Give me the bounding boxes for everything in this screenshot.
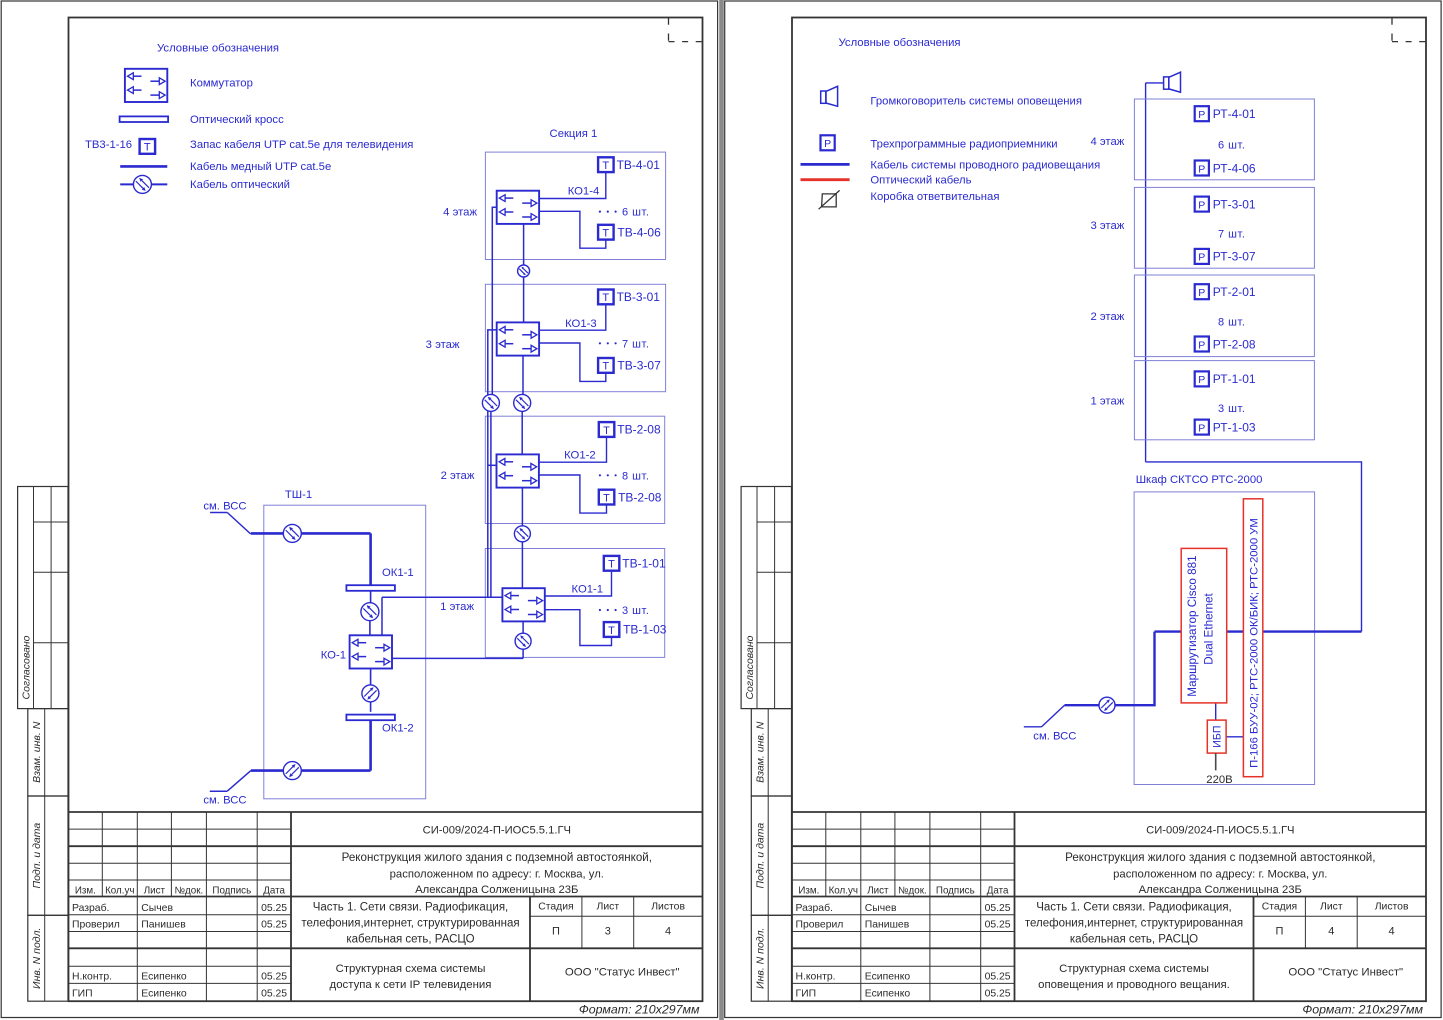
svg-text:P: P [1198,287,1205,299]
svg-text:П: П [552,926,560,938]
svg-text:3 этаж: 3 этаж [426,339,460,351]
svg-text:Подп. и дата: Подп. и дата [755,823,767,889]
switch КО1-3 [497,322,539,355]
legend optical cross symbol [120,116,169,122]
optical connector below KO-1 [362,685,379,702]
svg-text:05.25: 05.25 [985,971,1011,982]
node sm.VSS page2 [1042,705,1065,727]
svg-text:КО1-2: КО1-2 [564,450,596,462]
svg-text:ТВ-4-01: ТВ-4-01 [617,158,661,172]
svg-text:ООО "Статус Инвест": ООО "Статус Инвест" [565,967,680,979]
svg-text:P: P [1198,199,1205,211]
svg-text:Согласовано: Согласовано [744,635,756,699]
svg-text:оповещения и проводного вещани: оповещения и проводного вещания. [1038,979,1230,991]
svg-text:ИБП: ИБП [1211,726,1223,748]
svg-text:ТШ-1: ТШ-1 [285,489,312,501]
wire KO-1 up to floor1 line [381,597,383,635]
svg-text:кабельная сеть, РАСЦО: кабельная сеть, РАСЦО [1070,934,1198,946]
svg-text:Кабель системы проводного ради: Кабель системы проводного радиовещания [870,159,1100,171]
svg-text:Подпись: Подпись [212,885,251,896]
svg-text:Лист: Лист [597,901,620,912]
svg-text:Стадия: Стадия [1262,901,1297,912]
ellipsis and count floor 2 [599,474,601,476]
svg-text:Изм.: Изм. [798,885,819,896]
title block [69,811,703,813]
svg-text:П: П [1275,926,1283,938]
wire to floor 1 switch [382,596,502,598]
floor 2 box [485,416,664,523]
svg-text:Кабель медный UTP cat.5e: Кабель медный UTP cat.5e [190,161,331,173]
svg-text:7 шт.: 7 шт. [1218,229,1245,241]
svg-text:Разраб.: Разраб. [796,902,833,914]
legend loudspeaker symbol [821,91,826,103]
svg-text:СИ-009/2024-П-ИОС5.5.1.ГЧ: СИ-009/2024-П-ИОС5.5.1.ГЧ [1146,825,1294,837]
wire KO-1 right to riser [392,657,523,659]
svg-text:ГИП: ГИП [72,988,93,999]
optical connector on top VSS cable [283,524,301,542]
wire from ТВ-3-01 to switch [539,304,606,330]
TV outlet ТВ-3-01 [598,290,614,305]
ellipsis and count floor 1 [599,609,601,611]
svg-text:Громкоговоритель системы опове: Громкоговоритель системы оповещения [870,96,1082,108]
svg-text:Дата: Дата [263,885,285,896]
svg-text:P: P [1198,163,1205,175]
svg-text:8 шт.: 8 шт. [622,470,649,482]
svg-text:Секция 1: Секция 1 [550,128,598,140]
svg-text:Подпись: Подпись [936,885,975,896]
svg-text:4: 4 [1328,926,1334,938]
radio riser cable [1145,83,1147,462]
svg-text:Запас кабеля UTP cat.5e для те: Запас кабеля UTP cat.5e для телевидения [190,139,413,151]
wire riser to cabinet [1146,462,1362,632]
drawing frame [792,18,1426,1002]
margin stamp Взам. инв. N [751,709,791,796]
switch КО1-1 [502,588,544,621]
svg-text:Лист: Лист [1320,901,1343,912]
TV outlet ТВ-2-08 [599,490,615,505]
svg-text:4 этаж: 4 этаж [443,207,477,219]
svg-text:ТВ-3-01: ТВ-3-01 [617,290,661,304]
svg-text:Dual Ethernet: Dual Ethernet [1203,593,1216,665]
svg-text:ТВ-2-08: ТВ-2-08 [618,490,662,504]
svg-text:Формат: 210х297мм: Формат: 210х297мм [579,1003,700,1017]
TV outlet ТВ-1-01 [604,556,620,571]
svg-text:T: T [608,559,615,571]
legend wired radio cable [801,163,850,166]
wire from ТВ-2-08 to switch [539,437,607,462]
svg-text:ТВ-2-08: ТВ-2-08 [617,423,661,437]
legend optical cable line [120,183,167,185]
svg-text:3 шт.: 3 шт. [1218,403,1245,415]
svg-text:Разраб.: Разраб. [72,902,109,914]
UPS IBP [1207,720,1226,753]
legend optical cable red [801,178,850,181]
floor 3 box [485,284,665,391]
switch КО1-4 [497,191,539,224]
svg-text:Листов: Листов [651,901,685,912]
legend switch symbol [125,69,167,102]
svg-text:2 этаж: 2 этаж [1090,311,1124,323]
optical cable to VSS (top) [251,532,371,535]
margin stamp Взам. инв. N [28,709,68,796]
svg-text:Александра Солженицына 23Б: Александра Солженицына 23Б [1139,884,1302,896]
radio outlet РТ-2-01 [1195,284,1209,299]
svg-text:см. ВСС: см. ВСС [203,794,246,806]
svg-text:Оптический кабель: Оптический кабель [870,175,971,187]
svg-text:P: P [1198,339,1205,351]
optical connector above KO-1 [361,603,379,621]
node sm.VSS bottom [227,771,251,792]
svg-text:ТВ-1-03: ТВ-1-03 [623,623,667,637]
svg-text:7 шт.: 7 шт. [622,338,649,350]
floor2 switch left port wire [488,464,497,466]
svg-text:6 шт.: 6 шт. [1218,139,1245,151]
svg-text:P: P [1198,109,1205,121]
svg-text:Кол.уч: Кол.уч [829,885,858,896]
svg-text:РТ-4-06: РТ-4-06 [1213,161,1256,175]
approval table (Soglasovano) [741,487,791,709]
amplifier P-166 BUU-02 RTS-2000 [1243,499,1262,777]
svg-text:Реконструкция жилого здания с: Реконструкция жилого здания с подземной … [342,851,652,864]
title block [792,811,1426,813]
riser copper cable from floor4 switch [492,207,496,394]
backbone riser floor2-floor1 [521,488,523,526]
svg-text:Панишев: Панишев [141,920,186,931]
wire OK1-1 to connector [370,591,372,603]
svg-text:ТВ-3-07: ТВ-3-07 [617,359,661,373]
svg-text:ТВ3-1-16: ТВ3-1-16 [85,139,132,151]
svg-text:3 шт.: 3 шт. [622,605,649,617]
svg-text:РТ-3-07: РТ-3-07 [1213,250,1256,264]
svg-text:4: 4 [665,926,671,938]
svg-text:Кабель оптический: Кабель оптический [190,179,290,191]
approval table (Soglasovano) [18,487,68,709]
svg-text:Реконструкция жилого здания с: Реконструкция жилого здания с подземной … [1065,851,1375,864]
wire from switch to ТВ-1-03 [545,610,612,646]
svg-text:КО-1: КО-1 [321,650,346,662]
svg-text:Согласовано: Согласовано [20,635,32,699]
svg-text:Листов: Листов [1375,901,1409,912]
wire from switch to ТВ-4-06 [539,211,606,248]
svg-text:T: T [144,142,151,154]
svg-text:расположенном по адресу: г. Мо: расположенном по адресу: г. Москва, ул. [390,869,604,881]
floor 4 box [485,152,665,259]
svg-text:РТ-4-01: РТ-4-01 [1213,107,1256,121]
svg-text:220В: 220В [1206,774,1232,786]
margin stamp Инв. N подл. [751,915,791,1001]
svg-text:T: T [602,160,609,172]
svg-text:Подп. и дата: Подп. и дата [31,823,43,889]
svg-text:Сычев: Сычев [865,903,897,914]
svg-text:Сычев: Сычев [141,903,173,914]
svg-text:см. ВСС: см. ВСС [203,501,246,513]
svg-text:Часть 1. Сети связи. Радиофика: Часть 1. Сети связи. Радиофикация, [1036,902,1232,914]
svg-text:T: T [602,292,609,304]
svg-text:Н.контр.: Н.контр. [72,971,112,982]
floor 1 box page2 [1134,361,1314,440]
TV outlet ТВ-2-08 [599,422,615,437]
router Cisco 881 [1181,548,1227,703]
left riser continuation [490,411,492,597]
margin stamp Инв. N подл. [28,915,68,1001]
svg-text:кабельная сеть, РАСЦО: кабельная сеть, РАСЦО [346,934,474,946]
margin stamp Подп. и дата [28,796,68,915]
wire from ТВ-4-01 to switch [539,172,606,198]
svg-text:P: P [1198,252,1205,264]
svg-text:Условные обозначения: Условные обозначения [839,37,961,49]
svg-text:T: T [602,228,609,240]
floor 2 box page2 [1134,275,1314,357]
ellipsis and count floor 3 [599,342,601,344]
svg-text:2 этаж: 2 этаж [441,470,475,482]
TV outlet ТВ-4-01 [598,157,614,172]
svg-text:P: P [824,138,831,150]
radio outlet РТ-4-01 [1195,106,1209,121]
switch KO-1 [350,635,392,668]
radio outlet РТ-3-07 [1195,249,1209,264]
svg-text:Маршрутизатор Cisco 881: Маршрутизатор Cisco 881 [1186,555,1199,696]
main bus wire in cabinet [1155,630,1362,632]
svg-text:Инв. N подл.: Инв. N подл. [31,928,43,989]
svg-text:№док.: №док. [898,885,927,896]
svg-text:P: P [1198,374,1205,386]
optical connector on bottom VSS cable [283,762,301,780]
cabinet SKTSO RTS-2000 box [1134,492,1315,785]
svg-text:Есипенко: Есипенко [141,971,187,982]
svg-text:Коробка ответвительная: Коробка ответвительная [870,191,999,203]
svg-text:№док.: №док. [175,885,204,896]
svg-text:расположенном по адресу: г. Мо: расположенном по адресу: г. Москва, ул. [1113,869,1327,881]
floor 4 box page2 [1134,99,1314,180]
svg-text:05.25: 05.25 [261,920,287,931]
wire from switch to ТВ-2-08 [539,475,607,513]
sheet outline page at x=723.5 [725,1,1441,1018]
svg-text:T: T [608,625,615,637]
optical cross OK1-1 [346,585,395,591]
svg-text:Инв. N подл.: Инв. N подл. [755,928,767,989]
floor 1 box [485,549,664,658]
svg-text:05.25: 05.25 [261,988,287,999]
sheet outline page at x=0 [1,1,717,1018]
svg-text:3: 3 [605,926,611,938]
svg-text:Изм.: Изм. [75,885,96,896]
svg-text:КО1-3: КО1-3 [565,318,597,330]
corner fold mark [1391,18,1393,42]
legend junction box symbol [822,194,837,207]
radio outlet РТ-1-03 [1195,420,1209,435]
svg-text:ТВ-1-01: ТВ-1-01 [622,557,666,571]
svg-text:РТ-1-01: РТ-1-01 [1213,372,1256,386]
ellipsis and count floor 4 [599,211,601,213]
wire down to OK1-1 [369,533,372,585]
svg-text:ТВ-4-06: ТВ-4-06 [617,225,661,239]
svg-text:Александра Солженицына 23Б: Александра Солженицына 23Б [415,884,578,896]
page separator bar [719,0,724,1020]
svg-text:КО1-1: КО1-1 [572,583,604,595]
optical cross OK1-2 [346,715,395,721]
svg-text:Шкаф СКТСО РТС-2000: Шкаф СКТСО РТС-2000 [1136,474,1263,486]
svg-text:телефония,интернет, структурир: телефония,интернет, структурированная [1025,918,1243,930]
legend radio receiver symbol [821,135,835,150]
radio outlet РТ-3-01 [1195,197,1209,212]
TV outlet ТВ-3-07 [598,358,614,373]
svg-text:Структурная схема системы: Структурная схема системы [336,963,486,975]
svg-text:КО1-4: КО1-4 [568,186,600,198]
optical connector between floor2 and floor1 [514,526,530,542]
svg-text:Есипенко: Есипенко [865,988,911,999]
svg-text:Лист: Лист [144,885,166,896]
svg-text:6 шт.: 6 шт. [622,207,649,219]
svg-text:РТ-3-01: РТ-3-01 [1213,197,1256,211]
svg-text:Дата: Дата [987,885,1009,896]
radio outlet РТ-2-08 [1195,337,1209,352]
wire router to UPS [1215,703,1217,720]
svg-text:4: 4 [1389,926,1395,938]
svg-text:4 этаж: 4 этаж [1090,136,1124,148]
svg-text:05.25: 05.25 [985,920,1011,931]
svg-text:СИ-009/2024-П-ИОС5.5.1.ГЧ: СИ-009/2024-П-ИОС5.5.1.ГЧ [423,825,571,837]
svg-text:T: T [602,361,609,373]
optical cable to VSS (bottom) [251,769,371,772]
svg-text:РТ-2-01: РТ-2-01 [1213,285,1256,299]
svg-text:1 этаж: 1 этаж [1090,396,1124,408]
drawing frame [69,18,703,1002]
svg-text:Структурная схема системы: Структурная схема системы [1059,963,1209,975]
svg-text:см. ВСС: см. ВСС [1033,731,1076,743]
svg-text:Условные обозначения: Условные обозначения [157,43,279,55]
svg-text:T: T [603,492,610,504]
svg-text:05.25: 05.25 [985,903,1011,914]
svg-text:Коммутатор: Коммутатор [190,77,253,89]
wire UPS to amplifier [1226,736,1243,738]
svg-text:8 шт.: 8 шт. [1218,316,1245,328]
svg-text:Лист: Лист [867,885,889,896]
svg-text:Н.контр.: Н.контр. [796,971,836,982]
svg-text:Оптический кросс: Оптический кросс [190,114,284,126]
svg-text:05.25: 05.25 [985,988,1011,999]
svg-text:05.25: 05.25 [261,903,287,914]
riser below floor1 switch [522,621,524,633]
switch КО1-2 [497,454,539,487]
svg-text:T: T [603,425,610,437]
svg-text:Проверил: Проверил [796,920,844,931]
optical connector between floor4 and floor3 [518,265,530,277]
radio outlet РТ-1-01 [1195,371,1209,386]
svg-text:ОК1-1: ОК1-1 [382,567,414,579]
svg-text:ООО "Статус Инвест": ООО "Статус Инвест" [1288,967,1403,979]
svg-text:Взам. инв. N: Взам. инв. N [755,721,767,783]
wire down-left from bus [1065,632,1155,706]
svg-text:Панишев: Панишев [865,920,910,931]
svg-text:3 этаж: 3 этаж [1090,220,1124,232]
floor 3 box page2 [1134,187,1314,268]
svg-text:05.25: 05.25 [261,971,287,982]
corner fold mark [668,18,670,42]
optical connector below floor1 [515,633,531,649]
TV outlet ТВ-1-03 [604,622,620,637]
svg-text:ОК1-2: ОК1-2 [382,723,414,735]
svg-text:Трехпрограммные радиоприемники: Трехпрограммные радиоприемники [870,139,1057,151]
margin stamp Подп. и дата [751,796,791,915]
wire OK1-2 down [369,720,372,770]
svg-text:Кол.уч: Кол.уч [105,885,134,896]
svg-text:телефония,интернет, структурир: телефония,интернет, структурированная [301,918,519,930]
svg-text:P: P [1198,422,1205,434]
svg-text:РТ-2-08: РТ-2-08 [1213,337,1256,351]
riser copper cable from floor3 switch [488,330,497,597]
optical connector left riser [482,394,499,411]
radio outlet РТ-4-06 [1195,161,1209,176]
svg-text:РТ-1-03: РТ-1-03 [1213,420,1256,434]
svg-text:ГИП: ГИП [796,988,817,999]
svg-text:Есипенко: Есипенко [865,971,911,982]
speaker of notification system [1164,77,1169,89]
backbone riser floor4-floor3 [523,224,525,265]
wire from switch to ТВ-3-07 [539,343,606,381]
svg-text:доступа к сети IP телевидения: доступа к сети IP телевидения [330,979,492,991]
wire speaker to riser [1146,82,1164,84]
svg-text:Стадия: Стадия [538,901,573,912]
backbone riser floor3-floor2 [522,356,524,395]
svg-text:Взам. инв. N: Взам. инв. N [31,721,43,783]
svg-text:Часть 1. Сети связи. Радиофика: Часть 1. Сети связи. Радиофикация, [313,902,509,914]
svg-text:Формат: 210х297мм: Формат: 210х297мм [1302,1003,1423,1017]
cabinet TSh-1 box [264,505,426,799]
wire from ТВ-1-01 to switch [545,571,612,596]
optical connector on VSS cable page2 [1099,697,1115,713]
power wire 220V [1215,753,1217,770]
svg-text:Проверил: Проверил [72,920,120,931]
svg-text:Есипенко: Есипенко [141,988,187,999]
TV outlet ТВ-4-06 [598,225,614,240]
svg-text:1 этаж: 1 этаж [440,601,474,613]
wire KO-1 down [370,669,372,685]
legend copper cable line [120,165,167,168]
optical connector between floor3 and floor2 [514,394,531,411]
svg-text:П-166 БУУ-02; РТС-2000 ОК/БИК;: П-166 БУУ-02; РТС-2000 ОК/БИК; РТС-2000 … [1248,518,1260,768]
